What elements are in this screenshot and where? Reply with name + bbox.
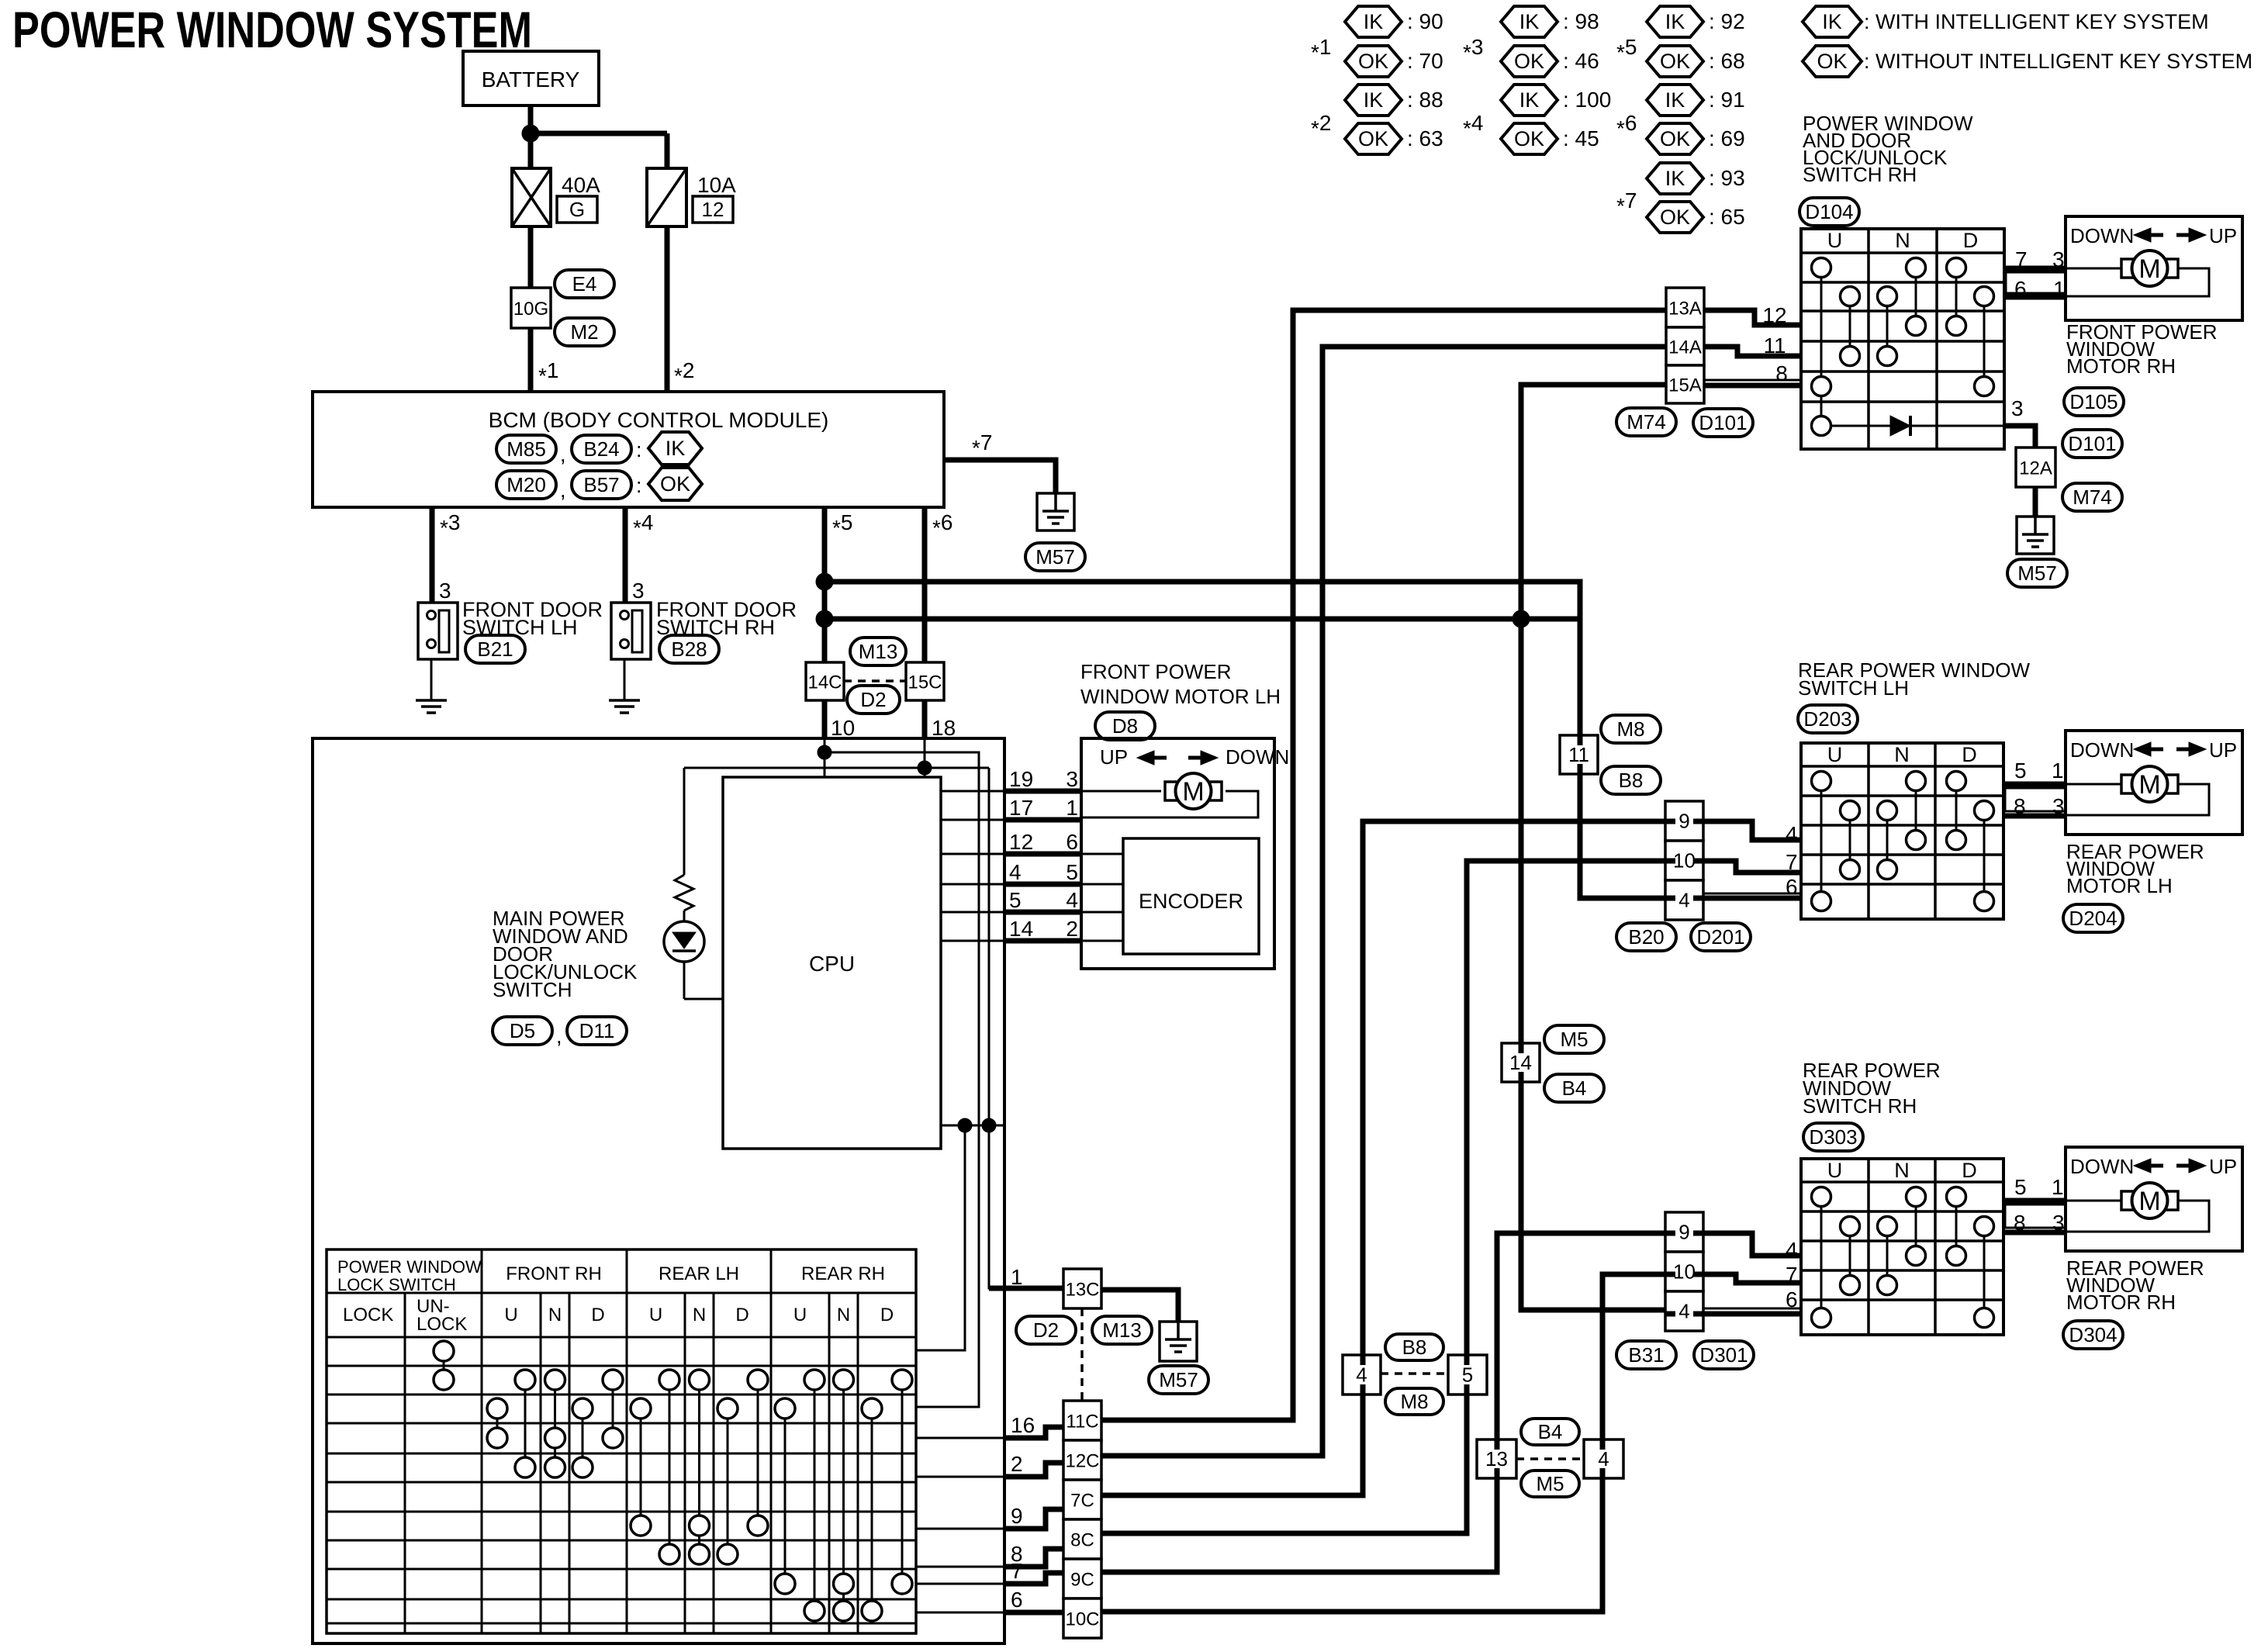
legend hex col3 IK 92: [1647, 6, 1703, 37]
connector M8 label: [1601, 715, 1661, 743]
svg-text::: :: [636, 474, 642, 497]
svg-text:: 92: : 92: [1709, 9, 1745, 33]
wire BCM *7 to ground: [944, 460, 1056, 493]
svg-text:: 70: : 70: [1407, 49, 1443, 73]
svg-text:14: 14: [1009, 917, 1033, 941]
wire D303 pin8 to motor pin3: [2003, 1230, 2066, 1236]
connector 9C: [1063, 1559, 1101, 1598]
connector 4 B4-M5 pair: [1584, 1439, 1623, 1478]
arrow left D304 motor: [2134, 1159, 2151, 1173]
connector 10G: [511, 288, 551, 328]
arrow left D204 motor: [2134, 742, 2151, 756]
svg-text:8: 8: [2014, 794, 2026, 818]
svg-text:M74: M74: [1627, 410, 1666, 434]
svg-text:3: 3: [439, 579, 451, 603]
svg-text:SWITCH RH: SWITCH RH: [1803, 163, 1917, 186]
svg-text:1: 1: [2052, 1175, 2064, 1199]
svg-text:18: 18: [932, 716, 956, 740]
connector M13: [850, 638, 906, 665]
svg-text:UP: UP: [2209, 738, 2237, 762]
dashed link 14C-15C: [844, 679, 906, 683]
svg-text:: 100: : 100: [1563, 88, 1611, 112]
dashed link 13-4: [1516, 1457, 1584, 1460]
wire motor RH rear return loop: [2066, 1201, 2209, 1232]
svg-text:U: U: [1827, 1159, 1843, 1182]
svg-text:B31: B31: [1628, 1343, 1664, 1367]
wire BCM *3 to front door switch LH: [430, 507, 435, 603]
svg-text:3: 3: [2052, 247, 2065, 271]
connector M8 pair label: [1385, 1388, 1443, 1415]
svg-text:CPU: CPU: [809, 952, 855, 976]
wire table row8 to 8C: [916, 1566, 1004, 1568]
svg-text:6: 6: [1786, 1287, 1798, 1312]
svg-text:8: 8: [2014, 1211, 2026, 1235]
legend hex col3 IK 91: [1647, 85, 1703, 116]
wire D203 pin5 to motor pin1: [2003, 782, 2066, 787]
connector D101 right: [2062, 430, 2122, 458]
svg-text:4: 4: [1356, 1363, 1367, 1387]
fuse F2 10A: [647, 168, 686, 226]
connector 14C: [806, 662, 844, 700]
connector D8: [1095, 712, 1155, 740]
wire CPU bottom taps: [941, 1125, 1004, 1127]
connector pass D303-D304 thin frame: [2003, 1204, 2066, 1206]
connector M2: [555, 318, 614, 346]
wire D303 pin7 net branch: [1521, 1308, 1665, 1313]
switch grid D303: [1801, 1159, 2003, 1335]
connector D101 below 15A: [1693, 409, 1753, 437]
svg-text:,: ,: [560, 443, 566, 466]
svg-text:LOCK: LOCK: [417, 1314, 467, 1335]
svg-text:FRONT POWER: FRONT POWER: [1080, 660, 1232, 683]
svg-text:D11: D11: [579, 1019, 615, 1042]
connector M20: [496, 471, 556, 499]
wire table row4 to 11C: [916, 1437, 1004, 1439]
wire encoder pin6: [1081, 853, 1123, 855]
legend hex col3 OK 69: [1647, 123, 1703, 154]
wire pin 9 into 7C: [1004, 1509, 1063, 1529]
svg-text:M: M: [2138, 1187, 2160, 1216]
wire tap A to table row1: [916, 1125, 965, 1350]
wire D104 pin3 to 12A: [2004, 426, 2035, 448]
connector B4 label: [1544, 1074, 1604, 1102]
svg-text:SWITCH LH: SWITCH LH: [1798, 676, 1909, 700]
wire 14A to 12C vertical: [1101, 347, 1666, 1456]
svg-text::: :: [636, 438, 642, 461]
connector M85: [496, 435, 556, 463]
connector D303: [1803, 1123, 1863, 1151]
svg-text:IK: IK: [1822, 10, 1842, 33]
connector 10 D203: [1665, 841, 1703, 880]
svg-text:SWITCH RH: SWITCH RH: [1803, 1094, 1917, 1118]
wire LED to CPU: [684, 998, 723, 1001]
wire F1 to BCM pin *1: [528, 226, 534, 392]
encoder box: [1123, 838, 1259, 954]
connector 14A: [1666, 327, 1704, 365]
wire 14C into main box pin 10: [822, 700, 828, 738]
switch grid D203: [1801, 743, 2003, 919]
svg-text:11C: 11C: [1066, 1412, 1098, 1433]
svg-text:M8: M8: [1616, 717, 1644, 741]
main power window and door lock unlock switch box: [313, 738, 1004, 1643]
connector 13 B4-M5 pair: [1477, 1439, 1516, 1478]
switch grid D104: [1801, 229, 2004, 449]
svg-text:D: D: [1962, 743, 1977, 766]
svg-text:N: N: [837, 1305, 850, 1325]
node junction 15A bus2: [1513, 610, 1530, 627]
connector D5: [493, 1017, 552, 1045]
svg-text:FRONT RH: FRONT RH: [506, 1263, 602, 1284]
svg-text:E4: E4: [572, 272, 597, 295]
svg-text:MOTOR LH: MOTOR LH: [2066, 874, 2173, 897]
hex OK BCM: [648, 468, 702, 500]
svg-text:UP: UP: [1100, 745, 1128, 769]
wire 11C to 13A net: [1101, 1418, 1293, 1423]
svg-text:POWER WINDOW: POWER WINDOW: [337, 1257, 482, 1277]
connector E4: [555, 270, 614, 298]
svg-text:IK: IK: [1364, 10, 1384, 33]
legend hex col3 OK 65: [1647, 202, 1703, 233]
svg-text:REAR RH: REAR RH: [801, 1263, 885, 1284]
table unlock contacts: [443, 1351, 445, 1380]
wire CPU pin 5 to motor-encoder pin 4: [941, 911, 1004, 914]
connector D301: [1694, 1341, 1754, 1369]
connector 14 M5-B4: [1502, 1043, 1540, 1082]
connector 10 D303: [1665, 1252, 1703, 1291]
svg-text:: WITH INTELLIGENT KEY SYSTEM: : WITH INTELLIGENT KEY SYSTEM: [1864, 10, 2209, 33]
svg-text:,: ,: [556, 1025, 562, 1048]
svg-text:OK: OK: [1358, 127, 1388, 150]
svg-text:11: 11: [1763, 334, 1786, 358]
svg-text:U: U: [649, 1305, 662, 1325]
svg-text:OK: OK: [660, 472, 690, 496]
svg-text:: 46: : 46: [1563, 49, 1599, 73]
svg-text:B28: B28: [671, 638, 707, 661]
arrow right D104 motor: [2189, 228, 2206, 242]
connector B28: [659, 635, 719, 663]
connector B20: [1616, 923, 1676, 951]
BCM body control module: [313, 392, 944, 507]
ground M57 below 13C: [1160, 1322, 1197, 1361]
svg-text:9: 9: [1678, 810, 1689, 833]
svg-text:17: 17: [1009, 796, 1033, 820]
svg-text:: 91: : 91: [1709, 88, 1745, 112]
connector D104: [1799, 198, 1859, 226]
wire D104 pin6 to motor pin1: [2004, 295, 2066, 300]
connector 13A: [1666, 288, 1704, 327]
svg-text:5: 5: [2014, 1175, 2027, 1199]
battery: [463, 51, 599, 105]
svg-text:OK: OK: [1660, 50, 1690, 73]
wire 13C to ground: [1101, 1290, 1178, 1322]
svg-text:DOWN: DOWN: [2070, 1155, 2134, 1178]
svg-text:N: N: [548, 1305, 562, 1325]
connector M57 for *7 ground: [1025, 543, 1085, 571]
svg-text:4: 4: [1066, 888, 1078, 912]
svg-text:D304: D304: [2069, 1323, 2117, 1346]
svg-text:19: 19: [1009, 767, 1033, 791]
svg-text:N: N: [1894, 1159, 1910, 1182]
svg-text:IK: IK: [1665, 88, 1685, 112]
svg-text:: 69: : 69: [1709, 126, 1745, 150]
connector D304: [2063, 1321, 2123, 1349]
svg-text:D: D: [1962, 1159, 1977, 1182]
svg-text:D101: D101: [2068, 432, 2116, 455]
svg-text:LOCK SWITCH: LOCK SWITCH: [337, 1275, 456, 1294]
wire F2 to BCM pin *2: [665, 226, 670, 392]
svg-text:4: 4: [1678, 889, 1689, 912]
svg-text:OK: OK: [1660, 127, 1690, 150]
legend hex col2 OK 46: [1501, 46, 1557, 77]
svg-text:: 65: : 65: [1709, 205, 1745, 229]
CPU box: [723, 777, 941, 1149]
wire battery to fuses: [528, 105, 534, 168]
wire encoder pin4: [1081, 911, 1123, 914]
svg-text:10A: 10A: [697, 173, 736, 197]
motor M rear RH: [2066, 1200, 2121, 1202]
connector B57: [572, 471, 631, 499]
svg-text:13: 13: [1485, 1447, 1508, 1471]
motor M front LH: [1081, 790, 1161, 793]
connector M57 below 13C: [1149, 1366, 1208, 1394]
svg-text:11: 11: [1568, 743, 1589, 766]
svg-text:1: 1: [2052, 759, 2064, 783]
node battery junction: [522, 125, 539, 142]
table rear RH contacts: [784, 1408, 787, 1584]
connector M13 lower: [1092, 1316, 1152, 1344]
wire CPU pin 14 to motor-encoder pin 2: [941, 940, 1004, 942]
wire BCM *4 to front door switch RH: [623, 507, 628, 603]
connector 12C: [1063, 1440, 1101, 1480]
connector 15C: [906, 662, 944, 700]
svg-text:D104: D104: [1805, 200, 1853, 223]
svg-text:8: 8: [1775, 361, 1788, 385]
ground under door switch RH: [609, 699, 640, 702]
svg-text:: 68: : 68: [1709, 49, 1745, 73]
legend hex col1 OK 63: [1345, 123, 1402, 154]
svg-text:ENCODER: ENCODER: [1139, 890, 1243, 913]
connector 4 D303: [1665, 1291, 1703, 1331]
connector D201: [1691, 923, 1751, 951]
svg-text:: 63: : 63: [1407, 126, 1443, 150]
connector M5 pair label: [1521, 1471, 1579, 1497]
front power window motor RH box: [2066, 216, 2242, 320]
svg-text:10G: 10G: [513, 299, 548, 320]
svg-text:D303: D303: [1809, 1125, 1857, 1149]
svg-text:2: 2: [1011, 1452, 1023, 1476]
svg-text:4: 4: [1678, 1300, 1689, 1323]
svg-text:1: 1: [1066, 796, 1078, 820]
arrow left D8 motor: [1137, 751, 1154, 765]
svg-text:4: 4: [1786, 822, 1798, 846]
wire pin 6 into 10C: [1004, 1610, 1063, 1616]
wire 15C into main box pin 18: [922, 700, 928, 738]
wire D203 pin8 to motor pin3: [2003, 814, 2066, 819]
svg-text:7C: 7C: [1070, 1491, 1094, 1512]
svg-text:12C: 12C: [1065, 1451, 1099, 1472]
rear power window motor RH box: [2066, 1147, 2242, 1251]
connector 7C: [1063, 1480, 1101, 1519]
legend hex col1 IK 88: [1345, 85, 1402, 116]
svg-text:OK: OK: [1514, 127, 1544, 150]
power window lock switch table: [327, 1249, 916, 1633]
wire D303 pin6: [1703, 1312, 1801, 1317]
svg-text:7: 7: [1011, 1559, 1023, 1583]
wire pin 7 into 9C: [1004, 1573, 1063, 1584]
svg-text:N: N: [1894, 743, 1910, 766]
wire D104 pin8 from 15A: [1704, 383, 1801, 389]
table front RH contacts: [496, 1408, 499, 1438]
svg-text:10C: 10C: [1065, 1609, 1099, 1630]
svg-text:M8: M8: [1400, 1390, 1428, 1413]
connector M57 right: [2007, 559, 2067, 587]
svg-text:5: 5: [1462, 1363, 1473, 1387]
svg-text:M: M: [2138, 254, 2160, 284]
wire switch RH to ground: [624, 659, 626, 700]
wire encoder pin2: [1081, 940, 1123, 942]
svg-text:14C: 14C: [807, 672, 842, 693]
bus wire from *6 junction 2: [825, 617, 1580, 622]
legend hex col2 OK 45: [1501, 123, 1557, 154]
svg-text:SWITCH: SWITCH: [493, 978, 572, 1001]
connector B4 pair label: [1521, 1419, 1579, 1445]
wire 12C to 14A net: [1101, 1453, 1322, 1459]
node tap B: [982, 1118, 996, 1132]
svg-text:IK: IK: [1665, 167, 1685, 190]
wire switch LH to ground: [430, 659, 433, 700]
svg-text:4: 4: [1786, 1238, 1798, 1262]
resistor R1: [683, 768, 686, 875]
wire D303 pin4: [1703, 1233, 1801, 1256]
node bus2 junction: [816, 610, 833, 627]
svg-text:M74: M74: [2073, 486, 2112, 509]
svg-text:UP: UP: [2209, 224, 2237, 247]
svg-text:D: D: [880, 1305, 894, 1325]
connector 8C: [1063, 1519, 1101, 1559]
svg-text:IK: IK: [1665, 10, 1685, 33]
svg-text:12: 12: [1009, 830, 1033, 854]
svg-text:8C: 8C: [1070, 1530, 1094, 1551]
svg-text:DOWN: DOWN: [2070, 738, 2134, 762]
svg-text:D201: D201: [1696, 925, 1744, 949]
svg-text:12A: 12A: [2019, 458, 2052, 479]
svg-text:16: 16: [1011, 1413, 1035, 1437]
wire pin 16 into 11C: [1004, 1427, 1063, 1438]
wire 9C to D303 pin4 net: [1101, 1233, 1665, 1572]
wire 12A to ground: [2033, 487, 2038, 517]
svg-text:40A: 40A: [562, 173, 600, 197]
svg-text:OK: OK: [1817, 50, 1847, 73]
connector B8 label: [1601, 766, 1661, 794]
svg-text:U: U: [1827, 229, 1843, 252]
legend hex col1 OK 70: [1345, 46, 1402, 77]
svg-text:M2: M2: [570, 320, 598, 344]
svg-text:M13: M13: [859, 640, 898, 663]
svg-text:: 93: : 93: [1709, 166, 1745, 190]
svg-text:D2: D2: [1033, 1318, 1059, 1342]
svg-text:POWER WINDOW SYSTEM: POWER WINDOW SYSTEM: [12, 1, 532, 58]
svg-text:OK: OK: [1514, 50, 1544, 73]
svg-text:3: 3: [632, 579, 645, 603]
svg-text:12: 12: [702, 198, 724, 221]
connector 9 D203: [1665, 801, 1703, 841]
svg-text:N: N: [693, 1305, 706, 1325]
wire D303 pin7: [1703, 1274, 1801, 1283]
ground under door switch LH: [416, 699, 447, 702]
connector B31: [1616, 1341, 1676, 1369]
fuse F1 40A: [512, 168, 551, 226]
wire pin18 tap to LED branch: [918, 761, 932, 775]
wire 8C to D203 pin7 net: [1101, 861, 1665, 1533]
svg-text:9C: 9C: [1070, 1570, 1094, 1591]
svg-text:: 98: : 98: [1563, 9, 1599, 33]
connector 15A: [1666, 365, 1704, 403]
svg-text:13C: 13C: [1065, 1280, 1099, 1301]
svg-text:10: 10: [1673, 849, 1696, 873]
table rear LH contacts: [640, 1408, 642, 1526]
wire pin10 tap: [818, 745, 831, 759]
LED D1 illumination: [683, 911, 686, 921]
svg-text:5: 5: [1066, 860, 1078, 884]
svg-text:13A: 13A: [1668, 299, 1702, 320]
svg-text:4: 4: [1598, 1447, 1609, 1471]
svg-text:: 90: : 90: [1407, 9, 1443, 33]
rear power window motor LH box: [2066, 731, 2242, 835]
wire D303 pin5 to motor pin1: [2003, 1198, 2066, 1204]
legend hex col3 IK 93: [1647, 163, 1703, 194]
svg-text:G: G: [569, 198, 585, 221]
ground M57 right: [2017, 517, 2054, 554]
hex IK BCM: [648, 432, 702, 465]
motor M rear LH: [2066, 783, 2121, 786]
node bus1 junction: [816, 573, 833, 590]
svg-text:N: N: [1895, 229, 1910, 252]
legend hex OK meaning: [1803, 46, 1862, 77]
svg-text:1: 1: [1011, 1265, 1023, 1289]
connector 5 B8-M8 pair: [1448, 1355, 1487, 1395]
svg-text:2: 2: [1066, 917, 1078, 941]
motor M front RH: [2066, 268, 2121, 270]
connector M74 right: [2062, 483, 2122, 511]
svg-text:U: U: [504, 1305, 517, 1325]
svg-text:15C: 15C: [908, 672, 942, 693]
svg-text:14A: 14A: [1668, 337, 1702, 358]
svg-text:4: 4: [1009, 860, 1022, 884]
connector D2 upper: [847, 686, 900, 714]
svg-text:15A: 15A: [1668, 375, 1702, 396]
svg-text:6: 6: [2014, 277, 2027, 301]
svg-text:BATTERY: BATTERY: [482, 67, 580, 92]
svg-text:D203: D203: [1803, 707, 1851, 731]
svg-text:M20: M20: [506, 473, 546, 496]
svg-text:U: U: [793, 1305, 807, 1325]
svg-text:: 88: : 88: [1407, 88, 1443, 112]
svg-text:M13: M13: [1102, 1318, 1142, 1342]
svg-text:: WITHOUT INTELLIGENT KEY SYST: : WITHOUT INTELLIGENT KEY SYSTEM: [1864, 50, 2252, 73]
svg-text:6: 6: [1786, 875, 1798, 899]
wire motor RH return loop: [2066, 268, 2209, 296]
svg-text:1: 1: [2053, 277, 2066, 301]
wire D203 pin7: [1703, 861, 1801, 873]
wire 15A to junction vertical: [1521, 385, 1666, 1310]
svg-text:MOTOR RH: MOTOR RH: [2066, 1291, 2176, 1314]
svg-text:3: 3: [1066, 767, 1078, 791]
svg-text:10: 10: [1673, 1260, 1696, 1284]
dashed link 13C-11C: [1080, 1308, 1084, 1401]
connector 11C: [1063, 1401, 1101, 1440]
svg-text:D2: D2: [860, 688, 886, 711]
wire D104 pin12 from 13A: [1704, 310, 1801, 325]
